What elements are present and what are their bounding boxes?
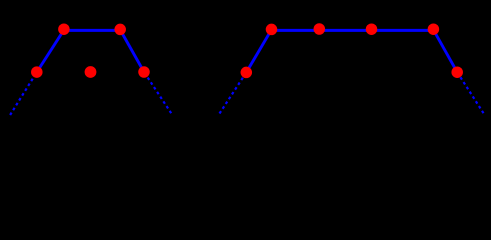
vertex v1 (left structure, lower-left): [31, 66, 43, 78]
vertex v5 (right structure, lower-left): [241, 67, 253, 79]
wire: dashed edge continuing down-right from vertex v4: [144, 72, 171, 113]
wire: dashed edge continuing down-left from vertex v1: [10, 72, 37, 115]
wire: solid horizontal edge v6 to v9: [271, 29, 433, 32]
vertex v3 (left structure, top-right): [114, 24, 126, 36]
wire: solid edge v5 to v6: [246, 30, 271, 73]
wire: solid edge v1 to v2: [37, 30, 64, 72]
vertex v4 (left structure, lower-right): [138, 66, 150, 78]
vertex v2 (left structure, top-left): [58, 23, 70, 35]
wire: dashed edge continuing down-left from vertex v5: [220, 72, 247, 113]
vertex v10 (right structure, lower-right): [451, 66, 463, 78]
vertex v9 (right structure, top 4): [428, 23, 440, 35]
wire: solid edge v3 to v4: [120, 30, 144, 72]
vertex v7 (right structure, top 2): [314, 23, 326, 35]
vertex v6 (right structure, top 1): [266, 24, 278, 36]
wire: solid horizontal edge v2 to v3: [64, 29, 120, 32]
wire: dashed edge continuing down-right from vertex v10: [457, 72, 483, 113]
vertex v8 (right structure, top 3): [366, 23, 378, 35]
vertex v0 (isolated center vertex of left structure): [85, 66, 97, 78]
wire: solid edge v9 to v10: [433, 30, 457, 72]
